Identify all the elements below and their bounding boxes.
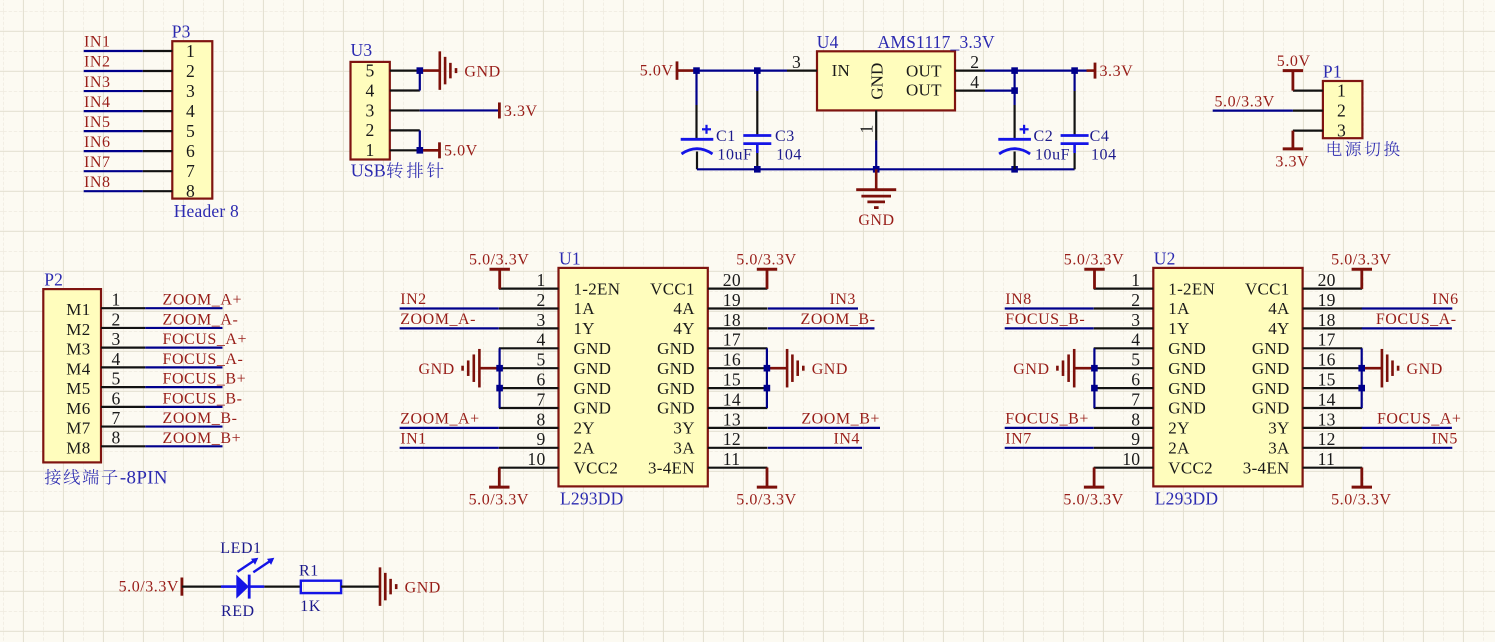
svg-text:5.0/3.3V: 5.0/3.3V bbox=[736, 492, 796, 509]
capacitor C2 bottom lead bbox=[1013, 152, 1015, 170]
svg-text:VCC2: VCC2 bbox=[574, 458, 619, 477]
svg-text:104: 104 bbox=[776, 146, 802, 163]
P2 pin M8 bbox=[101, 445, 145, 447]
wire R1 to GND bbox=[341, 585, 380, 587]
svg-text:13: 13 bbox=[723, 409, 741, 429]
svg-text:3.3V: 3.3V bbox=[1275, 153, 1309, 170]
power port 3.3V at U4 output bbox=[1087, 69, 1096, 72]
U4 pin 3 bbox=[787, 69, 817, 71]
svg-text:3A: 3A bbox=[673, 439, 695, 458]
svg-text:3: 3 bbox=[186, 81, 195, 101]
svg-text:GND: GND bbox=[1168, 379, 1206, 398]
wire IN6 bbox=[84, 150, 143, 152]
svg-text:5.0/3.3V: 5.0/3.3V bbox=[1063, 492, 1123, 509]
svg-text:10uF: 10uF bbox=[717, 146, 752, 163]
svg-text:GND: GND bbox=[812, 361, 848, 378]
capacitor C3 bottom lead bbox=[756, 144, 759, 153]
wire IN7 bbox=[84, 170, 143, 172]
svg-text:IN8: IN8 bbox=[1005, 291, 1032, 308]
wire IN8 bbox=[1005, 307, 1094, 309]
svg-text:2: 2 bbox=[365, 120, 374, 140]
svg-text:IN2: IN2 bbox=[400, 291, 427, 308]
svg-text:ZOOM_B-: ZOOM_B- bbox=[163, 410, 238, 427]
svg-text:L293DD: L293DD bbox=[560, 489, 623, 509]
U2 pin 12 bbox=[1303, 447, 1363, 449]
svg-text:C4: C4 bbox=[1090, 128, 1110, 145]
U4 pin 4 bbox=[955, 89, 985, 91]
svg-text:4: 4 bbox=[1131, 330, 1140, 350]
wire ZOOM_A+ bbox=[145, 307, 222, 309]
driver U1 body bbox=[559, 268, 708, 487]
svg-text:GND: GND bbox=[657, 379, 695, 398]
U4 pin 1 bbox=[875, 110, 877, 140]
svg-text:3: 3 bbox=[792, 52, 801, 72]
svg-text:3-4EN: 3-4EN bbox=[648, 458, 695, 477]
svg-text:7: 7 bbox=[1131, 389, 1140, 409]
svg-text:ZOOM_A-: ZOOM_A- bbox=[163, 311, 239, 328]
svg-text:1: 1 bbox=[186, 41, 195, 61]
P3 pin 5 bbox=[143, 130, 173, 132]
U1 pin 20 bbox=[708, 288, 768, 290]
svg-text:GND: GND bbox=[657, 359, 695, 378]
svg-text:3.3V: 3.3V bbox=[504, 103, 538, 120]
U1 pin 1 bbox=[499, 288, 559, 290]
svg-text:ZOOM_A-: ZOOM_A- bbox=[400, 311, 476, 328]
svg-text:4: 4 bbox=[536, 330, 545, 350]
svg-text:M4: M4 bbox=[66, 359, 90, 378]
svg-text:-8PIN: -8PIN bbox=[120, 467, 168, 488]
capacitor C1 bottom lead bbox=[696, 152, 698, 170]
svg-text:3Y: 3Y bbox=[1268, 419, 1289, 438]
svg-text:7: 7 bbox=[536, 389, 545, 409]
junction C1 top bbox=[693, 67, 700, 74]
P2 pin M1 bbox=[101, 307, 145, 309]
svg-text:5.0/3.3V: 5.0/3.3V bbox=[1331, 252, 1391, 269]
svg-text:ZOOM_A+: ZOOM_A+ bbox=[400, 411, 480, 428]
U1 pin 10 bbox=[499, 467, 559, 469]
junction U1 right GND pin15 bbox=[764, 385, 771, 392]
svg-text:FOCUS_A-: FOCUS_A- bbox=[1376, 311, 1457, 328]
svg-text:ZOOM_B+: ZOOM_B+ bbox=[163, 430, 242, 447]
svg-text:1A: 1A bbox=[1168, 299, 1190, 318]
svg-text:1Y: 1Y bbox=[574, 319, 595, 338]
U1 pin 12 bbox=[708, 447, 768, 449]
svg-text:5.0/3.3V: 5.0/3.3V bbox=[469, 252, 529, 269]
svg-text:P3: P3 bbox=[172, 22, 191, 42]
svg-text:IN3: IN3 bbox=[829, 291, 856, 308]
junction C3 top bbox=[754, 67, 761, 74]
svg-text:15: 15 bbox=[723, 370, 741, 390]
svg-text:3-4EN: 3-4EN bbox=[1243, 458, 1290, 477]
P1 pin 1 bbox=[1293, 89, 1323, 91]
svg-text:OUT: OUT bbox=[906, 62, 942, 81]
svg-text:4: 4 bbox=[970, 72, 979, 92]
svg-text:5: 5 bbox=[111, 369, 120, 389]
svg-text:20: 20 bbox=[723, 270, 741, 290]
power port 3.3V at P1 bbox=[1292, 131, 1295, 149]
svg-text:GND: GND bbox=[574, 399, 612, 418]
svg-text:18: 18 bbox=[1318, 310, 1336, 330]
svg-text:1: 1 bbox=[1337, 80, 1346, 100]
power port 5.0/3.3V U1 bottom-left bbox=[489, 486, 509, 489]
svg-text:1: 1 bbox=[111, 290, 120, 310]
wire FOCUS_B+ bbox=[1005, 427, 1094, 429]
ground GND at U3 bbox=[438, 51, 441, 90]
svg-text:1: 1 bbox=[1131, 270, 1140, 290]
svg-text:104: 104 bbox=[1091, 146, 1117, 163]
ground GND right of U2 bbox=[1381, 349, 1384, 388]
svg-text:M6: M6 bbox=[66, 399, 90, 418]
U1 pin 19 bbox=[708, 307, 768, 309]
svg-text:U4: U4 bbox=[817, 32, 839, 52]
power port 5.0/3.3V U1 bottom-right bbox=[757, 486, 777, 489]
power port 5.0V at P1 bbox=[1283, 69, 1303, 72]
svg-text:5.0/3.3V: 5.0/3.3V bbox=[119, 579, 179, 596]
svg-text:1: 1 bbox=[856, 125, 876, 134]
connector P1 body bbox=[1323, 81, 1363, 138]
svg-text:11: 11 bbox=[723, 449, 740, 469]
svg-text:10uF: 10uF bbox=[1035, 146, 1070, 163]
svg-text:OUT: OUT bbox=[906, 81, 942, 100]
U2 pin 17 bbox=[1303, 347, 1363, 349]
svg-text:5.0/3.3V: 5.0/3.3V bbox=[1331, 492, 1391, 509]
junction U1 left GND pin6 bbox=[496, 385, 503, 392]
ground GND left of U1 bbox=[478, 349, 481, 388]
U2 pin 4 bbox=[1094, 347, 1154, 349]
P2 pin M2 bbox=[101, 327, 145, 329]
ground GND at LED row bbox=[379, 567, 382, 606]
svg-text:FOCUS_A-: FOCUS_A- bbox=[163, 351, 244, 368]
svg-text:2: 2 bbox=[970, 52, 979, 72]
svg-text:5: 5 bbox=[536, 350, 545, 370]
svg-text:12: 12 bbox=[723, 429, 741, 449]
power port 5.0/3.3V U1 top-right bbox=[757, 268, 777, 271]
P2 comment terminal 8PIN bbox=[45, 469, 61, 485]
junction U2 right GND pin16 bbox=[1358, 365, 1365, 372]
wire U2 right GND bus bbox=[1361, 348, 1363, 408]
svg-text:IN6: IN6 bbox=[1432, 291, 1459, 308]
svg-text:6: 6 bbox=[536, 370, 545, 390]
U1 pin 17 bbox=[708, 347, 768, 349]
wire FOCUS_A- bbox=[1362, 327, 1452, 329]
svg-text:3Y: 3Y bbox=[673, 419, 694, 438]
svg-text:GND: GND bbox=[1407, 361, 1443, 378]
wire U3 pin3 to 3.3V bbox=[420, 109, 500, 111]
wire IN5 bbox=[1362, 447, 1453, 449]
wire IN2 bbox=[400, 307, 499, 309]
regulator U4 body bbox=[817, 51, 955, 110]
P1 comment power switch bbox=[1328, 141, 1342, 156]
svg-text:M1: M1 bbox=[66, 300, 90, 319]
svg-text:11: 11 bbox=[1318, 449, 1335, 469]
svg-text:IN7: IN7 bbox=[1005, 431, 1032, 448]
svg-text:ZOOM_B+: ZOOM_B+ bbox=[801, 411, 880, 428]
svg-text:3A: 3A bbox=[1268, 439, 1290, 458]
svg-text:GND: GND bbox=[657, 399, 695, 418]
svg-text:10: 10 bbox=[527, 449, 545, 469]
P3 pin 8 bbox=[143, 190, 173, 192]
junction pin4 wire bbox=[1011, 87, 1018, 94]
wire IN4 bbox=[84, 110, 143, 112]
svg-text:FOCUS_B-: FOCUS_B- bbox=[163, 390, 243, 407]
P1 pin 3 bbox=[1293, 130, 1323, 132]
svg-text:AMS1117_3.3V: AMS1117_3.3V bbox=[878, 32, 995, 52]
svg-text:M8: M8 bbox=[66, 438, 90, 457]
U2 pin 5 bbox=[1094, 367, 1154, 369]
wire FOCUS_A+ bbox=[1362, 427, 1452, 429]
P2 pin M6 bbox=[101, 406, 145, 408]
wire U1 left GND bus bbox=[499, 348, 501, 408]
U2 pin 11 bbox=[1303, 467, 1363, 469]
U3 pin 3 bbox=[390, 109, 420, 111]
wire IN3 bbox=[768, 307, 858, 309]
capacitor C1 top lead bbox=[695, 71, 697, 105]
wire U4 OUT pin2 to 3.3V bbox=[985, 69, 1087, 71]
svg-text:3: 3 bbox=[1131, 310, 1140, 330]
svg-text:9: 9 bbox=[1131, 429, 1140, 449]
svg-text:GND: GND bbox=[418, 361, 454, 378]
svg-text:8: 8 bbox=[186, 181, 195, 201]
U2 pin 20 bbox=[1303, 288, 1363, 290]
svg-text:M7: M7 bbox=[66, 419, 90, 438]
junction U3 GND bbox=[417, 67, 424, 74]
svg-text:VCC2: VCC2 bbox=[1168, 458, 1213, 477]
capacitor C2 top lead bbox=[1013, 91, 1015, 105]
svg-text:5.0V: 5.0V bbox=[444, 143, 478, 160]
wire IN7 bbox=[1005, 447, 1094, 449]
svg-text:VCC1: VCC1 bbox=[650, 279, 695, 298]
svg-text:5: 5 bbox=[186, 121, 195, 141]
junction GND rail bbox=[873, 166, 880, 173]
svg-text:6: 6 bbox=[111, 388, 120, 408]
svg-text:5.0/3.3V: 5.0/3.3V bbox=[1064, 252, 1124, 269]
svg-text:3: 3 bbox=[1337, 120, 1346, 140]
U1 pin 2 bbox=[499, 307, 559, 309]
svg-text:L293DD: L293DD bbox=[1155, 489, 1218, 509]
svg-text:GND: GND bbox=[1013, 361, 1049, 378]
svg-text:1: 1 bbox=[365, 140, 374, 160]
capacitor C3 top lead bbox=[756, 71, 758, 91]
LED1 arrow 2 bbox=[253, 561, 270, 572]
wire ZOOM_A- bbox=[400, 327, 499, 329]
svg-text:5.0V: 5.0V bbox=[1277, 53, 1311, 70]
svg-text:1: 1 bbox=[536, 270, 545, 290]
svg-text:GND: GND bbox=[1168, 339, 1206, 358]
svg-text:GND: GND bbox=[1252, 379, 1290, 398]
U3 pin 2 bbox=[390, 129, 420, 131]
U2 pin 7 bbox=[1094, 407, 1154, 409]
wire IN1 bbox=[84, 50, 143, 52]
svg-text:GND: GND bbox=[405, 579, 441, 596]
capacitor C4 bottom lead bbox=[1073, 144, 1076, 153]
svg-text:9: 9 bbox=[536, 429, 545, 449]
svg-text:1K: 1K bbox=[300, 598, 321, 615]
svg-text:8: 8 bbox=[1131, 409, 1140, 429]
wire 5.0/3.3V to P1 pin2 bbox=[1213, 109, 1293, 111]
P2 pin M3 bbox=[101, 347, 145, 349]
svg-text:16: 16 bbox=[1318, 350, 1336, 370]
svg-text:GND: GND bbox=[657, 339, 695, 358]
P3 pin 1 bbox=[143, 50, 173, 52]
svg-text:5.0/3.3V: 5.0/3.3V bbox=[736, 252, 796, 269]
wire IN8 bbox=[84, 190, 143, 192]
wire LED1 to R1 bbox=[264, 585, 301, 587]
svg-text:ZOOM_B-: ZOOM_B- bbox=[801, 311, 876, 328]
wire 5.0V to U4 IN bbox=[696, 69, 787, 71]
U1 pin 16 bbox=[708, 367, 768, 369]
wire ZOOM_B+ bbox=[145, 445, 222, 447]
junction U2 left GND pin6 bbox=[1091, 385, 1098, 392]
wire ZOOM_B- bbox=[768, 327, 875, 329]
svg-text:GND: GND bbox=[1252, 339, 1290, 358]
svg-text:2: 2 bbox=[111, 309, 120, 329]
U1 pin 8 bbox=[499, 427, 559, 429]
power port 5.0/3.3V U2 bottom-left bbox=[1084, 486, 1104, 489]
svg-text:3: 3 bbox=[365, 100, 374, 120]
P2 pin M7 bbox=[101, 425, 145, 427]
P3 pin 2 bbox=[143, 70, 173, 72]
ground rail wire bbox=[697, 168, 1075, 170]
U2 pin 3 bbox=[1094, 327, 1154, 329]
connector P2 body bbox=[43, 289, 101, 462]
junction C2 bottom bbox=[1011, 166, 1018, 173]
U1 pin 3 bbox=[499, 327, 559, 329]
wire U3 pins 5-4 to GND bbox=[419, 71, 421, 91]
U1 pin 5 bbox=[499, 367, 559, 369]
svg-text:2: 2 bbox=[1337, 100, 1346, 120]
svg-text:U3: U3 bbox=[351, 40, 373, 60]
svg-text:GND: GND bbox=[1252, 359, 1290, 378]
svg-text:GND: GND bbox=[867, 63, 886, 100]
wire ZOOM_A+ bbox=[400, 427, 499, 429]
power port 5.0V at U3 bbox=[438, 142, 441, 158]
junction U3 5.0V bbox=[417, 147, 424, 154]
svg-text:18: 18 bbox=[723, 310, 741, 330]
U1 pin 9 bbox=[499, 447, 559, 449]
U1 pin 7 bbox=[499, 407, 559, 409]
P2 pin M4 bbox=[101, 366, 145, 368]
svg-text:4: 4 bbox=[365, 80, 374, 100]
svg-text:C3: C3 bbox=[775, 128, 795, 145]
wire FOCUS_B+ bbox=[145, 386, 222, 388]
capacitor C4 bbox=[1061, 134, 1089, 137]
wire FOCUS_A- bbox=[145, 366, 222, 368]
svg-text:7: 7 bbox=[186, 161, 195, 181]
svg-text:ZOOM_A+: ZOOM_A+ bbox=[163, 292, 243, 309]
svg-text:USB: USB bbox=[351, 161, 386, 181]
wire IN4 bbox=[768, 447, 862, 449]
P3 pin 7 bbox=[143, 170, 173, 172]
svg-text:R1: R1 bbox=[299, 562, 319, 579]
U4 pin 2 bbox=[955, 69, 985, 71]
svg-text:5.0V: 5.0V bbox=[640, 63, 674, 80]
junction U2 left GND pin5 bbox=[1091, 365, 1098, 372]
svg-text:4: 4 bbox=[111, 349, 120, 369]
svg-text:GND: GND bbox=[574, 359, 612, 378]
junction C3 bottom bbox=[754, 166, 761, 173]
svg-text:5.0/3.3V: 5.0/3.3V bbox=[469, 492, 529, 509]
svg-text:C1: C1 bbox=[716, 128, 736, 145]
svg-text:2: 2 bbox=[536, 290, 545, 310]
ground GND left of U2 bbox=[1073, 349, 1076, 388]
svg-text:IN7: IN7 bbox=[84, 154, 111, 171]
U2 pin 15 bbox=[1303, 387, 1363, 389]
svg-text:5.0/3.3V: 5.0/3.3V bbox=[1215, 93, 1275, 110]
U1 pin 4 bbox=[499, 347, 559, 349]
svg-text:GND: GND bbox=[464, 63, 500, 80]
wire IN1 bbox=[400, 447, 499, 449]
svg-text:4A: 4A bbox=[673, 299, 695, 318]
svg-text:1-2EN: 1-2EN bbox=[574, 279, 621, 298]
U1 pin 6 bbox=[499, 387, 559, 389]
svg-text:FOCUS_B-: FOCUS_B- bbox=[1005, 311, 1085, 328]
svg-text:IN2: IN2 bbox=[84, 54, 111, 71]
wire ZOOM_A- bbox=[145, 327, 222, 329]
svg-text:IN: IN bbox=[832, 61, 851, 80]
svg-text:20: 20 bbox=[1318, 270, 1336, 290]
svg-text:IN1: IN1 bbox=[84, 34, 111, 51]
junction U2 right GND pin15 bbox=[1358, 385, 1365, 392]
U1 pin 11 bbox=[708, 467, 768, 469]
svg-text:6: 6 bbox=[186, 141, 195, 161]
svg-text:M5: M5 bbox=[66, 379, 90, 398]
wire power to LED1 bbox=[182, 585, 221, 587]
U1 pin 18 bbox=[708, 327, 768, 329]
svg-text:IN3: IN3 bbox=[84, 74, 111, 91]
svg-text:2Y: 2Y bbox=[1168, 419, 1189, 438]
svg-text:GND: GND bbox=[858, 212, 894, 229]
resistor R1 bbox=[301, 581, 341, 593]
svg-text:1-2EN: 1-2EN bbox=[1168, 279, 1215, 298]
svg-text:17: 17 bbox=[723, 330, 741, 350]
svg-text:1Y: 1Y bbox=[1168, 319, 1189, 338]
svg-text:FOCUS_A+: FOCUS_A+ bbox=[163, 331, 248, 348]
driver U2 body bbox=[1153, 268, 1302, 487]
junction U1 right GND pin16 bbox=[764, 365, 771, 372]
capacitor C3 bbox=[743, 134, 771, 137]
svg-text:FOCUS_B+: FOCUS_B+ bbox=[1005, 411, 1089, 428]
svg-text:19: 19 bbox=[723, 290, 741, 310]
svg-text:GND: GND bbox=[574, 339, 612, 358]
wire U4 OUT pin4 bbox=[985, 89, 1015, 91]
U1 pin 13 bbox=[708, 427, 768, 429]
svg-text:FOCUS_B+: FOCUS_B+ bbox=[163, 371, 247, 388]
svg-text:8: 8 bbox=[111, 428, 120, 448]
U2 pin 1 bbox=[1094, 288, 1154, 290]
svg-text:LED1: LED1 bbox=[220, 540, 261, 557]
U2 pin 10 bbox=[1094, 467, 1154, 469]
wire U2 left GND bus bbox=[1093, 348, 1095, 408]
capacitor C4 top lead bbox=[1073, 71, 1075, 91]
svg-text:2A: 2A bbox=[1168, 439, 1190, 458]
svg-text:12: 12 bbox=[1318, 429, 1336, 449]
svg-text:2Y: 2Y bbox=[574, 419, 595, 438]
power port 5.0/3.3V U2 top-right bbox=[1352, 268, 1372, 271]
svg-text:5: 5 bbox=[1131, 350, 1140, 370]
wire ZOOM_B+ bbox=[768, 427, 880, 429]
P2 pin M5 bbox=[101, 386, 145, 388]
U2 pin 16 bbox=[1303, 367, 1363, 369]
svg-text:RED: RED bbox=[221, 603, 255, 620]
svg-text:IN4: IN4 bbox=[833, 431, 860, 448]
svg-text:1A: 1A bbox=[574, 299, 596, 318]
power port 5.0/3.3V U2 bottom-right bbox=[1352, 486, 1372, 489]
svg-text:M2: M2 bbox=[66, 320, 90, 339]
svg-text:GND: GND bbox=[1252, 399, 1290, 418]
svg-text:4: 4 bbox=[186, 101, 195, 121]
svg-text:4A: 4A bbox=[1268, 299, 1290, 318]
capacitor C2 bbox=[998, 138, 1031, 141]
